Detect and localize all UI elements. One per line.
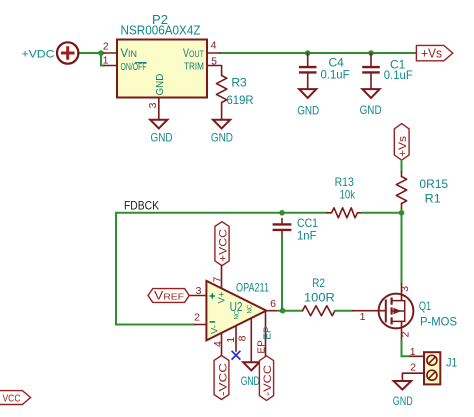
svg-text:OPA211: OPA211 [236, 280, 269, 294]
svg-text:R2: R2 [312, 276, 325, 290]
wire R2 to Q1 gate [335, 310, 353, 312]
pin 1 of Q1 (gate) [353, 311, 386, 323]
U2 reference label [230, 299, 243, 314]
svg-text:2: 2 [410, 361, 416, 373]
pin 6 of U2 [266, 298, 278, 311]
svg-text:NC: NC [248, 304, 254, 313]
pin 7 of U2 [212, 266, 224, 289]
wire pin6 to R2 [278, 310, 303, 312]
svg-text:GND: GND [297, 106, 319, 118]
pin 3 of U2 [189, 285, 206, 297]
wire R13 to node [362, 212, 402, 214]
svg-text:+VCC: +VCC [218, 229, 230, 262]
pin 8 of U2 [237, 318, 252, 362]
svg-text:+Vs: +Vs [421, 47, 442, 61]
global label +Vs (top right) [416, 45, 452, 60]
no-connect X on pin 1 [232, 351, 241, 360]
resistor R3 [216, 76, 253, 120]
pin 3 of Q1 [399, 284, 411, 301]
wire FDBCK horizontal [116, 212, 327, 214]
resistor R1 0R15 [396, 172, 448, 210]
pin 2 of U2 [194, 312, 206, 325]
global label +Vs (vertical) [394, 124, 409, 161]
pin name TRIM [184, 61, 204, 72]
resistor R13 [327, 175, 362, 218]
svg-text:EP: EP [263, 326, 274, 340]
regulator P2 body [117, 40, 207, 98]
svg-text:-VCC: -VCC [217, 363, 229, 396]
global label VREF [148, 289, 189, 303]
pin EP of U2 [256, 312, 273, 357]
P2 value NSR006A0X4Z [121, 24, 201, 38]
P2 reference label [152, 12, 168, 27]
svg-text:J1: J1 [446, 355, 457, 369]
svg-text:10k: 10k [340, 188, 356, 202]
wire +VDC to VIN [78, 52, 104, 54]
connector +VDC port [22, 42, 79, 63]
Q1 value P-MOS [420, 315, 457, 329]
capacitor CC1 [273, 216, 319, 310]
svg-text:VOUT: VOUT [183, 46, 204, 60]
global label VCC (cut at left edge) [0, 391, 31, 405]
Q1 reference label [419, 299, 432, 313]
wire FDBCK vertical to pin2 [116, 213, 195, 325]
junction C4 tap [305, 50, 311, 56]
svg-text:+VDC: +VDC [22, 49, 55, 61]
svg-text:1: 1 [410, 346, 416, 358]
U2 value OPA211 [236, 280, 269, 294]
pin 1 name mark [235, 310, 241, 319]
svg-text:ON/OFF: ON/OFF [121, 62, 147, 73]
pin 5 of P2 [207, 56, 222, 76]
svg-text:0R15: 0R15 [419, 177, 448, 191]
svg-text:FDBCK: FDBCK [124, 199, 159, 213]
ground below C1 [360, 89, 382, 117]
global label -VCC below EP [259, 356, 274, 401]
svg-text:+Vs: +Vs [397, 135, 409, 157]
pin 1 of P2 [103, 55, 117, 67]
svg-text:VCC: VCC [3, 393, 21, 405]
pin 2 of J1 [402, 361, 424, 381]
svg-text:5: 5 [211, 56, 217, 68]
wire VOUT to +Vs rail [220, 52, 416, 54]
junction R1/R13 node [399, 210, 405, 216]
svg-text:4: 4 [211, 40, 217, 52]
svg-text:7: 7 [212, 277, 224, 283]
pin 2 of Q1 [399, 321, 411, 340]
pin name V+ rotated [217, 291, 228, 303]
pin 8 name mark [248, 304, 254, 313]
pin name VOUT [183, 46, 204, 60]
svg-text:GND: GND [360, 105, 382, 117]
svg-text:1nF: 1nF [297, 229, 317, 243]
svg-text:TRIM: TRIM [184, 61, 204, 72]
ground below R3 [211, 120, 233, 145]
svg-text:P-MOS: P-MOS [420, 315, 457, 329]
junction C1 tap [368, 50, 374, 56]
ground below P2 [150, 120, 172, 145]
pin name V- rotated [210, 325, 221, 334]
svg-text:GND: GND [211, 132, 233, 144]
svg-text:1: 1 [225, 337, 237, 343]
wire R1 to node [401, 210, 403, 213]
pin 1 of U2 [225, 326, 237, 352]
svg-text:3: 3 [147, 102, 159, 108]
svg-text:EP: EP [256, 340, 267, 354]
wire branch to ON/OFF pin [101, 53, 104, 66]
pin 2 of P2 [103, 40, 117, 53]
U2 plus input mark [210, 293, 216, 299]
svg-text:V-: V- [210, 325, 221, 334]
svg-text:2: 2 [194, 312, 200, 324]
svg-text:100R: 100R [304, 291, 335, 305]
wire Q1 source to J1 [402, 341, 411, 357]
svg-text:GND: GND [241, 376, 260, 388]
ground below J1 [393, 381, 413, 408]
svg-text:4: 4 [212, 341, 224, 347]
svg-text:2: 2 [103, 40, 109, 52]
svg-text:VREF: VREF [154, 291, 184, 303]
svg-text:2: 2 [399, 331, 411, 337]
svg-text:R1: R1 [425, 192, 441, 206]
transistor Q1 body [379, 294, 414, 329]
svg-text:0.1uF: 0.1uF [384, 68, 413, 82]
wire +Vs to R1 [401, 160, 403, 172]
U2 minus input mark [210, 321, 216, 323]
op-amp U2 body [206, 281, 266, 341]
pin name GND rotated [155, 74, 166, 96]
svg-text:NSR006A0X4Z: NSR006A0X4Z [121, 24, 201, 38]
svg-text:Q1: Q1 [419, 299, 432, 313]
svg-text:VIN: VIN [121, 46, 138, 60]
svg-text:0.1uF: 0.1uF [321, 67, 350, 81]
resistor R2 [303, 276, 336, 316]
global label -VCC below pin 4 [214, 356, 229, 400]
label FDBCK [124, 199, 159, 213]
svg-text:3: 3 [399, 286, 411, 292]
svg-text:GND: GND [151, 132, 173, 144]
capacitor C4 [299, 53, 350, 89]
svg-text:619R: 619R [227, 93, 254, 107]
pin name VIN [121, 46, 138, 60]
junction CC1 top [279, 210, 285, 216]
svg-text:GND: GND [393, 396, 413, 408]
svg-text:6: 6 [270, 298, 276, 310]
global label +VCC [215, 222, 230, 266]
junction at +VDC branch [98, 50, 104, 56]
svg-text:3: 3 [196, 285, 202, 297]
svg-text:1: 1 [103, 55, 109, 67]
pin name ON/OFF with overline [121, 62, 147, 73]
wire node to Q1 drain [401, 213, 403, 284]
ground below C4 [297, 89, 319, 117]
svg-text:-VCC: -VCC [262, 365, 274, 396]
svg-text:GND: GND [155, 74, 166, 96]
junction CC1 bottom [280, 308, 286, 314]
pin 3 of P2 [147, 98, 159, 120]
svg-text:NC: NC [235, 310, 241, 319]
pin 4 of U2 [212, 333, 224, 356]
svg-text:R3: R3 [231, 76, 247, 90]
svg-text:V+: V+ [217, 291, 228, 303]
pin 4 of P2 [207, 40, 220, 53]
pin 1 of J1 [410, 346, 424, 358]
capacitor C1 [362, 53, 413, 89]
ground below pin 8 [241, 362, 260, 388]
svg-text:1: 1 [360, 311, 366, 323]
connector J1 body [424, 352, 440, 384]
J1 reference label [446, 355, 457, 369]
svg-text:8: 8 [237, 335, 249, 341]
